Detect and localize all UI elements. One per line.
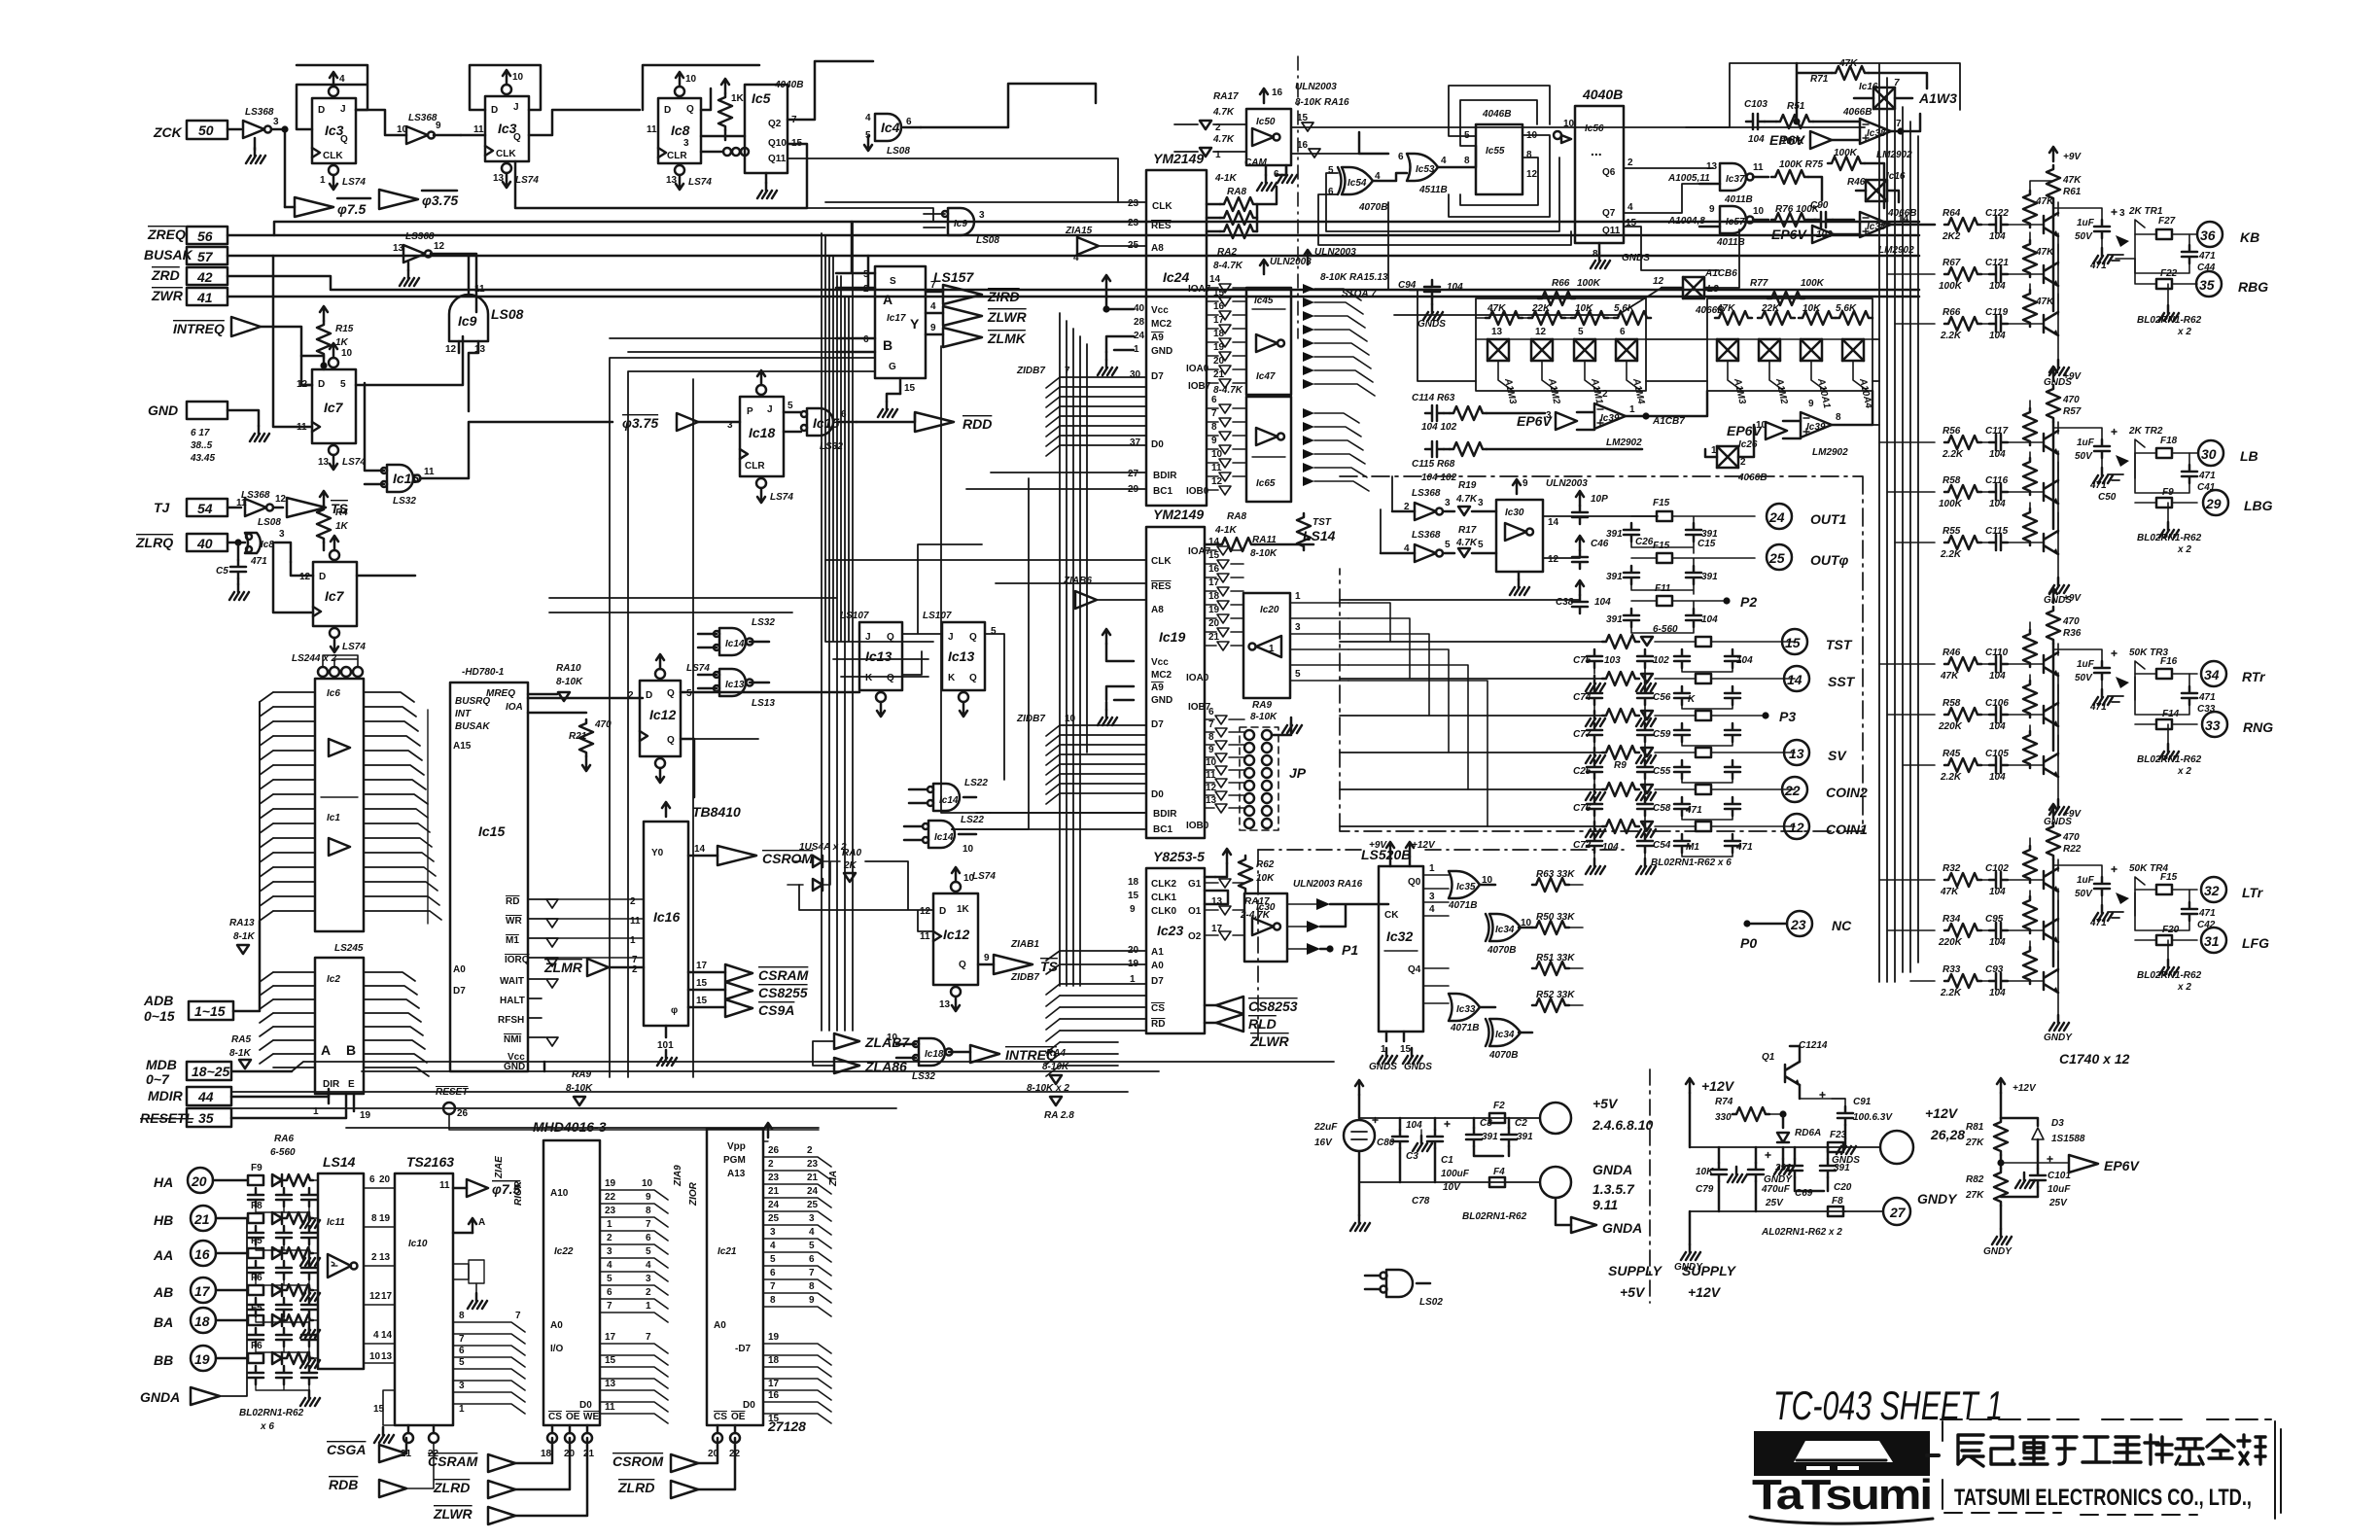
connector 22 COIN2 <box>1782 777 1868 802</box>
svg-text:C114 R63: C114 R63 <box>1412 393 1455 403</box>
svg-text:ZREQ: ZREQ <box>147 227 186 242</box>
svg-text:391: 391 <box>1606 614 1623 625</box>
svg-text:LS157: LS157 <box>933 269 974 285</box>
svg-text:10: 10 <box>512 72 524 83</box>
svg-text:AL02RN1-R62 x 2: AL02RN1-R62 x 2 <box>1761 1227 1842 1238</box>
svg-text:4.7K: 4.7K <box>1455 494 1478 505</box>
svg-text:F9: F9 <box>2162 487 2174 498</box>
svg-text:E: E <box>348 1079 355 1090</box>
svg-text:10K: 10K <box>1256 873 1275 884</box>
svg-text:13: 13 <box>1789 746 1804 761</box>
svg-text:MC2: MC2 <box>1151 670 1172 681</box>
svg-text:GNDY: GNDY <box>1983 1246 2012 1257</box>
svg-text:Q0: Q0 <box>1408 877 1421 888</box>
IC22 data bus right <box>600 1332 668 1423</box>
resistor R19 4.7K <box>1455 480 1496 515</box>
svg-text:47K: 47K <box>2062 175 2082 186</box>
switch IC26b 4066 <box>1705 425 1767 483</box>
svg-text:J: J <box>513 102 519 113</box>
svg-text:EP6V: EP6V <box>1771 227 1807 242</box>
svg-text:24: 24 <box>768 1200 780 1210</box>
svg-text:9: 9 <box>1130 904 1136 915</box>
svg-text:2: 2 <box>632 964 638 975</box>
connector 31 LFG <box>2201 927 2269 953</box>
resistor R74 330 <box>1715 1097 1783 1123</box>
cap C44 <box>2089 234 2216 273</box>
svg-text:NC: NC <box>1832 918 1852 933</box>
svg-text:D: D <box>646 690 652 701</box>
svg-text:7: 7 <box>1208 719 1214 730</box>
svg-text:K: K <box>1688 694 1696 705</box>
IC16 gnd <box>657 1026 677 1066</box>
svg-text:LS74: LS74 <box>770 492 793 503</box>
opamp IC38b LM2902 <box>1860 212 1935 256</box>
svg-text:C102: C102 <box>1985 863 2009 874</box>
bus trunk verticals center <box>822 222 853 1031</box>
svg-text:C106: C106 <box>1985 698 2009 709</box>
svg-text:Ic15: Ic15 <box>478 823 505 839</box>
svg-text:9: 9 <box>436 121 441 131</box>
svg-text:D7: D7 <box>1151 719 1164 730</box>
svg-text:3: 3 <box>2119 208 2125 219</box>
svg-text:4046B: 4046B <box>1482 109 1511 120</box>
svg-text:5: 5 <box>340 379 346 390</box>
connector ZRD 42 <box>151 267 1919 290</box>
IC50 ground <box>1257 165 1279 191</box>
svg-text:13: 13 <box>393 243 404 254</box>
svg-text:RD: RD <box>506 896 519 907</box>
wire IC12a outputs <box>681 692 859 797</box>
svg-text:6 17: 6 17 <box>191 428 210 438</box>
svg-text:R57: R57 <box>2063 406 2082 417</box>
svg-text:R33: R33 <box>1942 964 1961 975</box>
feedback loop wire top <box>1686 63 1960 127</box>
svg-text:BL02RN1-R62: BL02RN1-R62 <box>2137 533 2202 543</box>
svg-text:8-4.7K: 8-4.7K <box>1213 385 1243 396</box>
wire feeds into box <box>1340 476 1580 600</box>
resistor R66 100K top A <box>1538 278 1601 305</box>
wire from IC5 Q to AND IC4 <box>515 61 873 208</box>
svg-text:Q: Q <box>686 104 694 115</box>
svg-text:Ic10: Ic10 <box>408 1239 428 1249</box>
svg-text:104: 104 <box>1989 331 2006 341</box>
svg-text:GNDS: GNDS <box>1404 1062 1432 1072</box>
svg-text:391: 391 <box>1701 572 1718 582</box>
svg-text:F15: F15 <box>1653 541 1670 551</box>
svg-text:13: 13 <box>381 1351 393 1362</box>
svg-text:LS14: LS14 <box>1303 528 1336 543</box>
IC30b outputs with ULN triangles <box>1287 879 1388 958</box>
svg-text:Ic8: Ic8 <box>671 122 690 138</box>
svg-text:Ic13: Ic13 <box>865 648 892 664</box>
svg-text:8: 8 <box>646 1206 651 1216</box>
IC23 O triangles to IC30 <box>1205 879 1244 940</box>
svg-text:ADB: ADB <box>143 993 173 1008</box>
svg-text:16: 16 <box>1272 87 1283 98</box>
svg-text:15: 15 <box>696 978 708 989</box>
svg-text:104: 104 <box>1748 134 1765 145</box>
ZIAB1 bus into IC23 <box>1010 939 1146 974</box>
svg-text:ZIOR: ZIOR <box>688 1181 699 1207</box>
wire BDIR trunk <box>941 346 1029 829</box>
gate IC14a and <box>909 778 988 811</box>
svg-text:D0: D0 <box>1151 789 1164 800</box>
sram IC22 MHD4016 <box>533 1119 607 1425</box>
svg-text:5: 5 <box>459 1357 465 1368</box>
psg IC24 <box>1146 151 1211 506</box>
gate IC13a nand <box>698 617 775 655</box>
IC10 A arrow <box>453 1217 485 1233</box>
svg-text:F15: F15 <box>1653 498 1670 508</box>
svg-text:4.7K: 4.7K <box>1212 107 1235 118</box>
svg-text:471: 471 <box>1685 805 1702 816</box>
svg-text:MREQ: MREQ <box>486 688 515 699</box>
svg-text:9: 9 <box>930 323 936 333</box>
svg-text:R51: R51 <box>1787 101 1805 112</box>
svg-text:12: 12 <box>299 572 311 582</box>
svg-text:GNDS: GNDS <box>1369 1062 1397 1072</box>
svg-text:15: 15 <box>1400 1044 1412 1055</box>
IOA triangles to buffers <box>1207 274 1246 388</box>
svg-text:Q: Q <box>667 688 675 699</box>
svg-text:47K: 47K <box>1940 887 1959 897</box>
svg-text:26: 26 <box>768 1145 780 1156</box>
svg-text:ZLMK: ZLMK <box>987 331 1027 346</box>
svg-text:TATSUMI ELECTRONICS CO., LTD.,: TATSUMI ELECTRONICS CO., LTD., <box>1954 1485 2252 1511</box>
IC21 bottom pins <box>708 1412 806 1459</box>
wire ic3b to ic8 <box>529 110 640 135</box>
svg-text:Q: Q <box>887 673 894 683</box>
svg-text:471: 471 <box>2198 471 2216 481</box>
svg-text:TST: TST <box>1312 517 1332 528</box>
svg-text:6: 6 <box>607 1287 612 1298</box>
bead F4 to GNDA <box>1489 1167 1540 1187</box>
flip-flop IC12b <box>920 867 996 1011</box>
ZIA arrow into IC24 A8 <box>1065 226 1146 263</box>
switch IC16a 4066B <box>1842 78 1957 118</box>
svg-text:LS74: LS74 <box>686 663 710 674</box>
svg-text:A0: A0 <box>550 1320 563 1331</box>
svg-text:24: 24 <box>807 1186 819 1197</box>
svg-text:10K: 10K <box>1575 303 1593 314</box>
svg-text:Ic9: Ic9 <box>954 219 967 229</box>
svg-text:LS368: LS368 <box>408 113 437 123</box>
svg-text:F4: F4 <box>1493 1167 1505 1177</box>
cpu IC15 HD780 <box>450 667 530 1072</box>
svg-text:A10: A10 <box>550 1188 569 1199</box>
svg-text:17: 17 <box>696 961 708 971</box>
svg-text:RA2: RA2 <box>1217 247 1237 258</box>
svg-text:ZCK: ZCK <box>153 124 183 140</box>
input RC row BA <box>248 1303 320 1368</box>
svg-text:WE: WE <box>583 1412 599 1422</box>
svg-text:3: 3 <box>607 1246 612 1257</box>
svg-text:13: 13 <box>1206 795 1217 806</box>
svg-text:23: 23 <box>1128 198 1139 209</box>
svg-text:Ic22: Ic22 <box>554 1246 574 1257</box>
svg-text:19: 19 <box>1208 605 1220 615</box>
svg-text:LM2902: LM2902 <box>1812 447 1848 458</box>
svg-text:6: 6 <box>863 334 869 345</box>
svg-text:10: 10 <box>369 1351 381 1362</box>
wire ic7b <box>273 542 415 612</box>
logo trapezoid <box>1794 1441 1893 1470</box>
svg-text:22K: 22K <box>1531 303 1551 314</box>
GNDA input arrow <box>140 1218 247 1405</box>
svg-text:KB: KB <box>2240 229 2259 245</box>
svg-text:C76: C76 <box>1573 803 1592 814</box>
svg-text:CLK: CLK <box>323 151 343 161</box>
svg-text:Ic55: Ic55 <box>1486 146 1505 157</box>
svg-text:471: 471 <box>2198 908 2216 919</box>
svg-text:4: 4 <box>770 1241 776 1251</box>
svg-text:CS: CS <box>714 1412 727 1422</box>
svg-text:C5: C5 <box>216 566 228 577</box>
svg-text:LS245: LS245 <box>334 943 364 954</box>
bead F48 to GNDY <box>1828 1196 1883 1216</box>
IC15 MREQ out wire <box>528 698 643 713</box>
gate IC8b LS08 <box>245 517 291 562</box>
connector ZREQ 56 <box>147 227 1919 244</box>
svg-text:44: 44 <box>197 1089 214 1104</box>
svg-text:A1: A1 <box>1151 947 1164 958</box>
svg-text:C50: C50 <box>2098 492 2117 503</box>
svg-text:φ7.5: φ7.5 <box>337 201 367 217</box>
svg-text:21: 21 <box>193 1211 210 1227</box>
connector circle BB 19 <box>154 1346 248 1371</box>
svg-text:P: P <box>747 406 753 417</box>
svg-text:C56: C56 <box>1653 692 1671 703</box>
svg-text:RA9: RA9 <box>1252 700 1272 711</box>
IC24 vcc cluster <box>1098 275 1134 375</box>
svg-text:RTr: RTr <box>2242 669 2266 684</box>
nand IC37 4011B <box>1667 161 1768 205</box>
svg-text:5: 5 <box>991 626 997 637</box>
svg-text:M1: M1 <box>506 935 519 946</box>
svg-text:28: 28 <box>1134 317 1145 328</box>
svg-text:Ic18: Ic18 <box>749 425 775 440</box>
svg-text:BDIR: BDIR <box>1153 471 1177 481</box>
svg-text:12: 12 <box>1548 554 1559 565</box>
svg-text:F22: F22 <box>2160 268 2178 279</box>
svg-text:I/O: I/O <box>550 1344 564 1354</box>
svg-text:14: 14 <box>1548 517 1559 528</box>
inverter IC4 LS368 <box>243 107 285 163</box>
svg-text:8-1K: 8-1K <box>229 1048 251 1059</box>
logo black box <box>1754 1431 1930 1476</box>
svg-text:K: K <box>865 673 873 683</box>
transistor Q1 C1214 <box>1762 1040 1828 1118</box>
logo underline <box>1750 1517 1933 1523</box>
svg-text:A0: A0 <box>453 964 466 975</box>
connector 34 RTr <box>2201 661 2266 686</box>
svg-text:C80: C80 <box>1377 1137 1395 1148</box>
svg-text:R66: R66 <box>1942 307 1961 318</box>
svg-text:YM2149: YM2149 <box>1153 151 1204 166</box>
buffer IC6/IC1 <box>315 679 364 931</box>
svg-text:D: D <box>318 105 325 116</box>
wires gates to IC19 <box>952 813 1146 829</box>
connector 27 GNDY <box>1883 1191 1958 1225</box>
reset connector at IC2 bottom <box>436 1087 819 1130</box>
wires from buffers right merging to bus <box>1314 289 1375 491</box>
svg-text:OUT1: OUT1 <box>1810 511 1847 527</box>
P3 row <box>1340 709 1796 763</box>
svg-text:R74: R74 <box>1715 1097 1733 1107</box>
capacitor C94 <box>1398 280 1463 330</box>
svg-text:ZLRQ: ZLRQ <box>135 535 173 550</box>
svg-text:F5: F5 <box>251 1303 262 1313</box>
svg-text:C55: C55 <box>1653 766 1671 777</box>
svg-text:9: 9 <box>1211 436 1217 446</box>
svg-text:COIN2: COIN2 <box>1826 785 1868 800</box>
svg-text:42: 42 <box>196 269 213 285</box>
svg-text:CLK2: CLK2 <box>1151 879 1177 890</box>
svg-text:C2: C2 <box>1515 1118 1527 1129</box>
input RC row HA <box>248 1163 320 1228</box>
svg-text:LS13: LS13 <box>752 698 775 709</box>
svg-text:O1: O1 <box>1188 906 1202 917</box>
svg-text:8: 8 <box>459 1311 465 1321</box>
svg-text:F9: F9 <box>251 1163 262 1173</box>
svg-text:12: 12 <box>1211 476 1223 487</box>
horizontal rails lower <box>231 1092 1128 1128</box>
SUPPLY labels <box>1608 1263 1737 1300</box>
company seal border <box>1941 1419 2281 1519</box>
label RA13 <box>229 918 255 954</box>
svg-text:Ic4: Ic4 <box>881 120 900 135</box>
svg-text:C1740 x 12: C1740 x 12 <box>2059 1051 2130 1067</box>
buffer IC20 <box>1243 593 1290 698</box>
svg-text:471: 471 <box>2089 480 2107 491</box>
gnd at +12V rail left <box>1674 1211 1703 1273</box>
svg-text:BL02RN1-R62: BL02RN1-R62 <box>2137 970 2202 981</box>
svg-text:6: 6 <box>809 1254 815 1265</box>
svg-text:Q4: Q4 <box>1408 964 1421 975</box>
svg-text:21: 21 <box>1208 632 1220 643</box>
svg-text:10K: 10K <box>1802 303 1821 314</box>
svg-text:22uF: 22uF <box>1313 1122 1338 1133</box>
connector +5V <box>1540 1096 1653 1134</box>
svg-text:104: 104 <box>1989 721 2006 732</box>
svg-text:8: 8 <box>809 1281 815 1292</box>
svg-text:56: 56 <box>197 228 213 244</box>
IC56 gnd <box>1591 243 1650 268</box>
svg-text:Ic2: Ic2 <box>327 974 340 985</box>
svg-text:1US4A x 2: 1US4A x 2 <box>799 842 847 853</box>
svg-text:Y0: Y0 <box>651 848 664 858</box>
svg-text:9: 9 <box>1522 478 1528 489</box>
svg-text:GNDA: GNDA <box>1602 1220 1642 1236</box>
svg-text:40: 40 <box>1134 303 1145 314</box>
IC2 right diag bus <box>364 972 429 1076</box>
svg-text:F14: F14 <box>2162 709 2180 719</box>
ladder A resistors <box>1476 303 1651 325</box>
AND gate IC9 LS08 <box>445 256 524 411</box>
svg-text:7: 7 <box>646 1219 651 1230</box>
connector ZWR 41 <box>151 288 1919 305</box>
svg-text:1K: 1K <box>335 521 349 532</box>
svg-text:OUTφ: OUTφ <box>1810 552 1849 568</box>
svg-text:C90: C90 <box>1810 200 1829 211</box>
svg-text:ZIA15: ZIA15 <box>1065 226 1093 236</box>
svg-text:RA6: RA6 <box>274 1134 294 1144</box>
svg-text:25: 25 <box>1768 550 1785 566</box>
svg-text:4071B: 4071B <box>1448 900 1477 911</box>
svg-text:ZRD: ZRD <box>151 267 180 283</box>
svg-text:ULN2003: ULN2003 <box>1270 257 1312 267</box>
svg-text:Ic13: Ic13 <box>725 680 745 690</box>
resistor R77 100K over opamp b <box>1828 148 1884 208</box>
svg-text:35: 35 <box>198 1110 214 1126</box>
svg-text:R58: R58 <box>1942 698 1961 709</box>
svg-text:+5V: +5V <box>1592 1096 1619 1111</box>
svg-text:470: 470 <box>2062 395 2080 405</box>
svg-text:19: 19 <box>379 1213 391 1224</box>
svg-text:15: 15 <box>1213 288 1225 298</box>
svg-text:23: 23 <box>768 1172 780 1183</box>
svg-text:Q2: Q2 <box>768 119 782 129</box>
svg-text:19: 19 <box>194 1351 210 1367</box>
IC24 left pin numbers <box>1128 198 1145 495</box>
svg-text:3: 3 <box>770 1227 776 1238</box>
IC19 BDIR BC1 wires <box>952 813 1146 829</box>
svg-text:F18: F18 <box>2160 436 2178 446</box>
svg-text:C78: C78 <box>1412 1196 1430 1207</box>
IC10 pins right mid <box>453 1260 487 1309</box>
svg-text:BL02RN1-R62: BL02RN1-R62 <box>239 1408 304 1418</box>
svg-text:5: 5 <box>787 401 793 411</box>
svg-text:ULN2003: ULN2003 <box>1314 247 1356 258</box>
svg-text:22: 22 <box>1784 783 1801 798</box>
OUT0 RC network <box>1572 536 1755 594</box>
svg-text:Ic12: Ic12 <box>943 927 969 942</box>
svg-text:104: 104 <box>1989 671 2006 682</box>
svg-text:R64: R64 <box>1942 208 1961 219</box>
svg-text:4011B: 4011B <box>1724 194 1753 205</box>
svg-text:1K: 1K <box>335 337 349 348</box>
gate IC15a LS32 <box>784 408 857 452</box>
svg-text:7: 7 <box>646 1332 651 1343</box>
svg-text:1~15: 1~15 <box>194 1003 226 1019</box>
svg-text:C72: C72 <box>1573 840 1592 851</box>
svg-text:1: 1 <box>630 935 636 946</box>
svg-text:Q: Q <box>959 960 966 970</box>
svg-text:RDB: RDB <box>329 1477 358 1492</box>
label RA17 <box>1240 896 1271 921</box>
svg-text:CLK1: CLK1 <box>1151 892 1177 903</box>
input RC row AB <box>248 1273 320 1338</box>
svg-text:A: A <box>478 1217 485 1228</box>
svg-text:1: 1 <box>1629 404 1635 415</box>
svg-text:20: 20 <box>191 1173 207 1189</box>
IC32 outputs to gates <box>1423 863 1449 1003</box>
svg-text:4070B: 4070B <box>1358 202 1387 213</box>
CSRAM ZLRD ZLWR arrows <box>428 1438 587 1524</box>
svg-text:C54: C54 <box>1653 840 1671 851</box>
svg-text:7: 7 <box>459 1334 465 1345</box>
connector MDIR 44 <box>148 1087 329 1105</box>
decoder IC16 <box>644 802 741 1026</box>
IC32 vcc arrows <box>1369 840 1436 866</box>
svg-text:LS14: LS14 <box>323 1154 356 1170</box>
connector 14 SST <box>1784 666 1856 691</box>
svg-text:LS368: LS368 <box>1412 488 1441 499</box>
svg-text:WAIT: WAIT <box>500 976 524 987</box>
IC20 output extensions <box>1348 603 1487 826</box>
flip-flop IC3a <box>312 98 356 163</box>
svg-text:36: 36 <box>2200 227 2216 243</box>
